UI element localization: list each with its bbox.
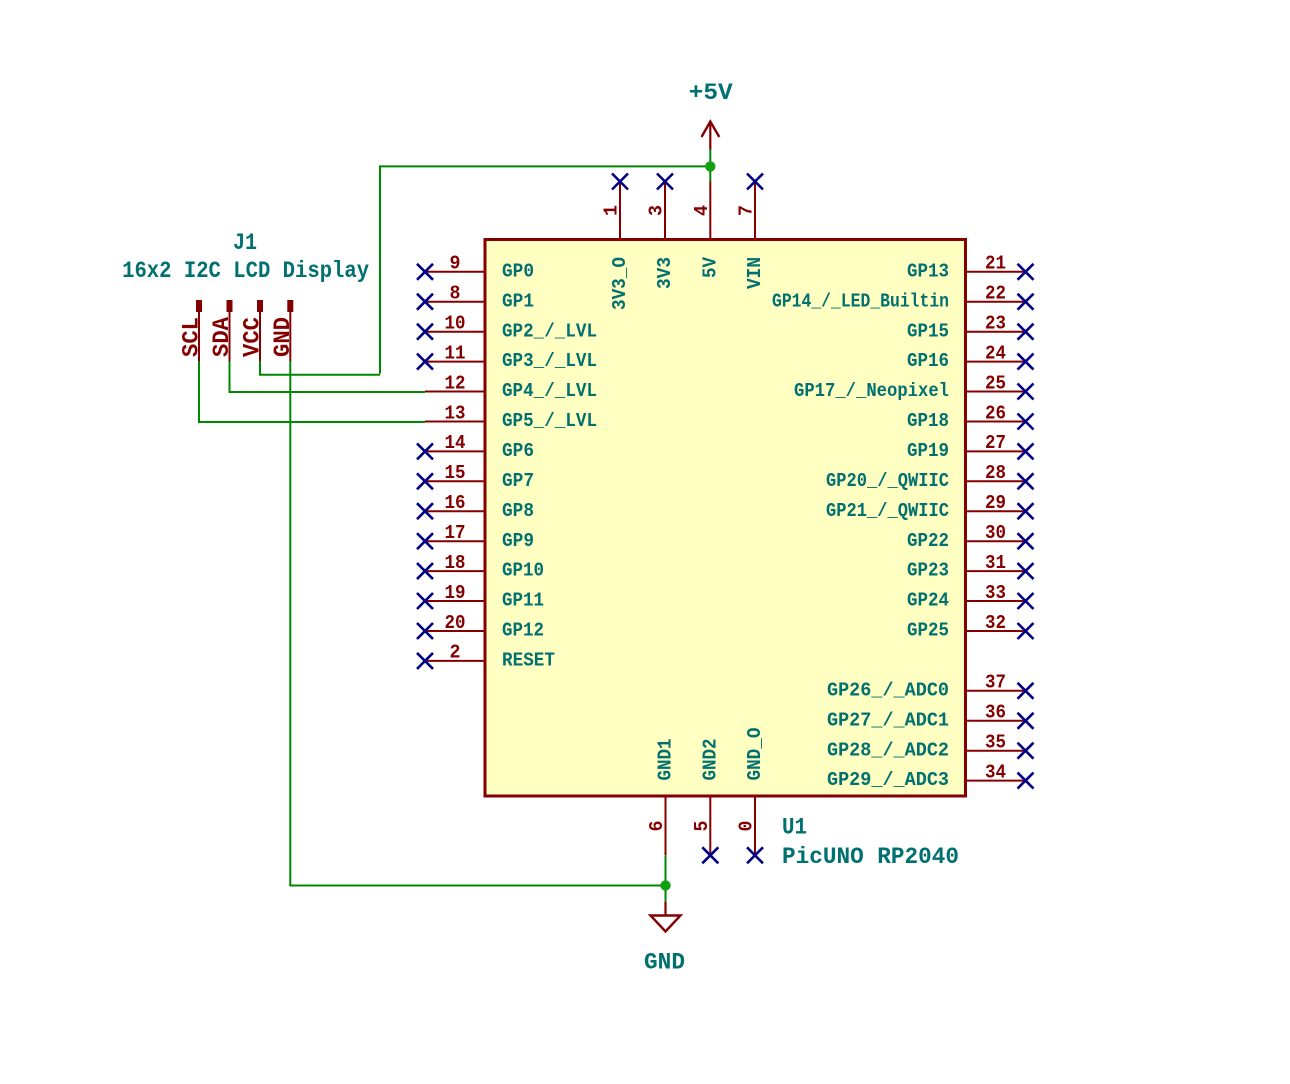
svg-text:GP7: GP7 — [502, 470, 534, 492]
svg-text:J1: J1 — [233, 230, 257, 256]
svg-text:3V3: 3V3 — [654, 257, 676, 289]
U1 top pin 1 3V3_O — [619, 182, 621, 240]
svg-text:VCC: VCC — [240, 317, 266, 357]
svg-text:26: 26 — [985, 402, 1006, 424]
power symbol +5V — [702, 122, 720, 150]
U1 pin 2 RESET — [425, 660, 485, 662]
svg-text:GP29_/_ADC3: GP29_/_ADC3 — [827, 769, 949, 791]
no-connect X on pin 20 — [417, 623, 433, 639]
U1 pin 18 GP10 — [425, 570, 485, 572]
svg-text:GP22: GP22 — [907, 530, 949, 552]
U1 pin 19 GP11 — [425, 600, 485, 602]
no-connect X on pin 19 — [417, 593, 433, 609]
svg-text:GP1: GP1 — [502, 290, 534, 312]
svg-text:15: 15 — [445, 462, 466, 484]
no-connect X on pin 27 — [1018, 443, 1034, 459]
svg-text:3V3_O: 3V3_O — [609, 257, 631, 310]
svg-text:GND_O: GND_O — [744, 728, 766, 781]
U1 pin 11 GP3_/_LVL — [425, 361, 485, 363]
U1 pin 28 GP20_/_QWIIC — [966, 480, 1026, 482]
svg-text:30: 30 — [985, 522, 1006, 544]
svg-text:23: 23 — [985, 313, 1006, 335]
U1 pin 31 GP23 — [966, 570, 1026, 572]
no-connect X on pin 31 — [1018, 563, 1034, 579]
no-connect X on pin 10 — [417, 324, 433, 340]
svg-text:GP24: GP24 — [907, 590, 949, 612]
U1 pin 22 GP14_/_LED_Builtin — [966, 301, 1026, 303]
no-connect X on pin 30 — [1018, 533, 1034, 549]
U1 top pin 4 5V — [709, 182, 711, 240]
no-connect X on pin 5 — [702, 847, 718, 863]
svg-text:3: 3 — [646, 205, 668, 216]
U1 bottom pin 5 GND2 — [709, 796, 711, 855]
svg-text:GP2_/_LVL: GP2_/_LVL — [502, 320, 597, 342]
svg-text:GND: GND — [644, 950, 685, 976]
svg-text:16x2 I2C LCD Display: 16x2 I2C LCD Display — [122, 258, 369, 284]
U1 pin 13 GP5_/_LVL — [425, 421, 485, 423]
wire VCC: horizontal to riser — [259, 374, 380, 376]
no-connect X on pin 28 — [1018, 473, 1034, 489]
U1 pin 12 GP4_/_LVL — [425, 391, 485, 393]
U1 pin 25 GP17_/_Neopixel — [966, 391, 1026, 393]
U1 pin 20 GP12 — [425, 630, 485, 632]
svg-text:GP3_/_LVL: GP3_/_LVL — [502, 350, 597, 372]
svg-text:19: 19 — [445, 582, 466, 604]
wire GND1 pin to junction — [665, 856, 667, 886]
U1 pin 27 GP19 — [966, 450, 1026, 452]
junction dot at +5V — [705, 161, 715, 171]
svg-text:7: 7 — [736, 205, 758, 216]
wire VCC: J1.VCC down — [259, 361, 261, 375]
no-connect X on pin 21 — [1018, 264, 1034, 280]
U1 pin 16 GP8 — [425, 510, 485, 512]
svg-text:GP15: GP15 — [907, 320, 949, 342]
U1 pin 36 GP27_/_ADC1 — [966, 720, 1026, 722]
U1 bottom pin 6 GND1 — [665, 796, 667, 855]
U1 pin 35 GP28_/_ADC2 — [966, 750, 1026, 752]
wire junction to ground symbol — [665, 886, 667, 903]
svg-text:GP0: GP0 — [502, 260, 534, 282]
svg-text:GP9: GP9 — [502, 530, 534, 552]
U1 pin 15 GP7 — [425, 480, 485, 482]
no-connect X on pin 33 — [1018, 593, 1034, 609]
svg-text:8: 8 — [450, 283, 461, 305]
svg-text:0: 0 — [736, 821, 758, 832]
no-connect X on pin 16 — [417, 503, 433, 519]
svg-text:GP4_/_LVL: GP4_/_LVL — [502, 380, 597, 402]
op-amp U1 body: PicUNO RP2040 — [485, 240, 966, 797]
connector J1 pin SCL — [196, 300, 202, 361]
U1 top pin 3 3V3 — [664, 182, 666, 240]
svg-text:36: 36 — [985, 702, 1006, 724]
U1 pin 10 GP2_/_LVL — [425, 331, 485, 333]
svg-text:VIN: VIN — [744, 257, 766, 289]
no-connect X on pin 25 — [1018, 384, 1034, 400]
wire GND: horizontal to GND junction — [289, 885, 665, 887]
svg-text:SCL: SCL — [179, 317, 205, 357]
ground symbol — [651, 902, 681, 932]
U1 pin 30 GP22 — [966, 540, 1026, 542]
svg-text:RESET: RESET — [502, 650, 555, 672]
svg-text:17: 17 — [445, 522, 466, 544]
svg-text:4: 4 — [691, 205, 713, 216]
connector J1 pin GND — [287, 300, 293, 361]
svg-text:34: 34 — [985, 761, 1006, 783]
svg-text:GP20_/_QWIIC: GP20_/_QWIIC — [826, 470, 949, 492]
svg-text:27: 27 — [985, 432, 1006, 454]
svg-text:2: 2 — [450, 642, 461, 664]
svg-text:37: 37 — [985, 672, 1006, 694]
U1 pin 24 GP16 — [966, 361, 1026, 363]
no-connect X on pin 35 — [1018, 743, 1034, 759]
junction dot at GND — [660, 880, 670, 890]
svg-text:14: 14 — [445, 432, 466, 454]
U1 pin 32 GP25 — [966, 630, 1026, 632]
svg-text:+5V: +5V — [689, 80, 733, 106]
U1 bottom pin 0 GND_O — [754, 796, 756, 855]
svg-text:24: 24 — [985, 342, 1006, 364]
no-connect X on pin 8 — [417, 294, 433, 310]
svg-text:U1: U1 — [782, 815, 807, 841]
U1 pin 23 GP15 — [966, 331, 1026, 333]
wire SCL: J1.SCL down — [198, 361, 200, 422]
svg-text:35: 35 — [985, 732, 1006, 754]
svg-text:21: 21 — [985, 253, 1006, 275]
wire SCL: horizontal to GP5 pin — [198, 421, 425, 423]
svg-text:10: 10 — [445, 313, 466, 335]
wire GND: J1.GND down — [289, 361, 291, 886]
no-connect X on pin 18 — [417, 563, 433, 579]
svg-text:GP8: GP8 — [502, 500, 534, 522]
wire SDA: horizontal to GP4 pin — [229, 391, 426, 393]
svg-text:GND2: GND2 — [700, 739, 722, 781]
U1 pin 21 GP13 — [966, 271, 1026, 273]
U1 pin 17 GP9 — [425, 540, 485, 542]
no-connect X on pin 17 — [417, 533, 433, 549]
svg-text:GP19: GP19 — [907, 440, 949, 462]
no-connect X on pin 3 — [657, 174, 673, 190]
no-connect X on pin 11 — [417, 354, 433, 370]
no-connect X on pin 9 — [417, 264, 433, 280]
no-connect X on pin 34 — [1018, 773, 1034, 789]
svg-text:11: 11 — [445, 342, 466, 364]
U1 top pin 7 VIN — [754, 182, 756, 240]
svg-text:1: 1 — [601, 205, 623, 216]
svg-text:GP16: GP16 — [907, 350, 949, 372]
svg-text:18: 18 — [445, 552, 466, 574]
connector J1 pin VCC — [257, 300, 263, 361]
no-connect X on pin 32 — [1018, 623, 1034, 639]
U1 pin 26 GP18 — [966, 421, 1026, 423]
U1 pin 29 GP21_/_QWIIC — [966, 510, 1026, 512]
svg-text:GND1: GND1 — [655, 739, 677, 781]
no-connect X on pin 26 — [1018, 414, 1034, 430]
no-connect X on pin 23 — [1018, 324, 1034, 340]
wire +5V vertical through junction to 5V pin — [709, 150, 711, 182]
no-connect X on pin 15 — [417, 473, 433, 489]
wire SDA: J1.SDA down — [229, 361, 231, 392]
svg-text:GP12: GP12 — [502, 620, 544, 642]
svg-text:25: 25 — [985, 372, 1006, 394]
svg-text:PicUNO RP2040: PicUNO RP2040 — [782, 844, 959, 870]
svg-text:GP28_/_ADC2: GP28_/_ADC2 — [827, 739, 949, 761]
U1 pin 14 GP6 — [425, 450, 485, 452]
svg-text:GP13: GP13 — [907, 260, 949, 282]
svg-text:GP14_/_LED_Builtin: GP14_/_LED_Builtin — [772, 290, 949, 312]
no-connect X on pin 14 — [417, 443, 433, 459]
svg-text:GP23: GP23 — [907, 560, 949, 582]
no-connect X on pin 37 — [1018, 683, 1034, 699]
svg-text:SDA: SDA — [209, 317, 235, 357]
svg-text:22: 22 — [985, 283, 1006, 305]
wire VCC: top horizontal to +5V junction — [379, 165, 710, 167]
svg-text:32: 32 — [985, 612, 1006, 634]
svg-text:GP5_/_LVL: GP5_/_LVL — [502, 410, 597, 432]
svg-text:GP17_/_Neopixel: GP17_/_Neopixel — [794, 380, 949, 402]
svg-text:33: 33 — [985, 582, 1006, 604]
svg-text:16: 16 — [445, 492, 466, 514]
svg-text:GND: GND — [270, 317, 296, 357]
svg-text:28: 28 — [985, 462, 1006, 484]
svg-text:13: 13 — [445, 402, 466, 424]
svg-text:12: 12 — [445, 372, 466, 394]
svg-text:9: 9 — [450, 253, 461, 275]
no-connect X on pin 0 — [747, 847, 763, 863]
svg-text:6: 6 — [646, 821, 668, 832]
svg-text:GP6: GP6 — [502, 440, 534, 462]
svg-text:GP26_/_ADC0: GP26_/_ADC0 — [827, 679, 949, 701]
svg-text:GP11: GP11 — [502, 590, 544, 612]
U1 pin 34 GP29_/_ADC3 — [966, 780, 1026, 782]
svg-text:GP10: GP10 — [502, 560, 544, 582]
svg-text:5V: 5V — [700, 256, 722, 278]
no-connect X on pin 7 — [747, 174, 763, 190]
U1 pin 37 GP26_/_ADC0 — [966, 690, 1026, 692]
svg-text:20: 20 — [445, 612, 466, 634]
U1 pin 8 GP1 — [425, 301, 485, 303]
svg-text:31: 31 — [985, 552, 1006, 574]
U1 pin 33 GP24 — [966, 600, 1026, 602]
no-connect X on pin 36 — [1018, 713, 1034, 729]
U1 pin 9 GP0 — [425, 271, 485, 273]
no-connect X on pin 22 — [1018, 294, 1034, 310]
svg-text:GP27_/_ADC1: GP27_/_ADC1 — [827, 709, 949, 731]
no-connect X on pin 2 — [417, 653, 433, 669]
svg-text:GP18: GP18 — [907, 410, 949, 432]
no-connect X on pin 29 — [1018, 503, 1034, 519]
svg-text:GP21_/_QWIIC: GP21_/_QWIIC — [826, 500, 949, 522]
no-connect X on pin 24 — [1018, 354, 1034, 370]
svg-text:GP25: GP25 — [907, 620, 949, 642]
svg-text:29: 29 — [985, 492, 1006, 514]
no-connect X on pin 1 — [612, 174, 628, 190]
connector J1 pin SDA — [227, 300, 233, 361]
wire VCC: riser up — [379, 166, 381, 373]
svg-text:5: 5 — [691, 821, 713, 832]
